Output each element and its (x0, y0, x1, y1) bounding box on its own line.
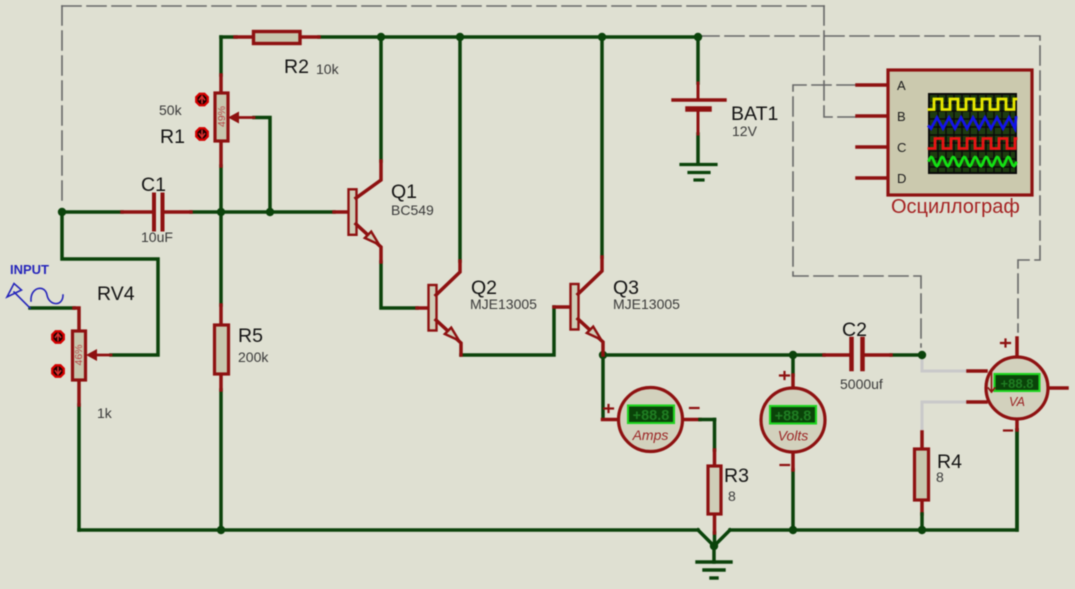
svg-text:+88.8: +88.8 (633, 408, 670, 424)
node: wiper junction (266, 208, 274, 216)
dashed link: battery rail to VA meter plus (700, 36, 1040, 332)
svg-text:R5: R5 (238, 325, 263, 347)
svg-text:A: A (897, 78, 906, 93)
R1 up button (196, 94, 207, 105)
node: rail Q3 (598, 33, 606, 41)
wire: Q2 collector to rail (458, 37, 462, 261)
transistor Q1 (334, 161, 381, 262)
dashed region border top/left + scope pin B dashed link (62, 6, 856, 203)
wire: top supply rail (221, 35, 698, 39)
wire: Q3 collector to rail (600, 37, 604, 257)
trace B blue (929, 118, 1016, 129)
wire: R3 bottom to ground node (713, 533, 717, 546)
wire: main horizontal input node y=211 (62, 210, 334, 214)
svg-text:C: C (897, 140, 906, 155)
transistor Q3 (554, 257, 603, 355)
svg-text:INPUT: INPUT (10, 262, 49, 277)
RV4 down button (52, 365, 63, 376)
node: rail Q1 (377, 33, 385, 41)
svg-text:BAT1: BAT1 (731, 103, 778, 125)
svg-text:1k: 1k (97, 405, 113, 421)
RV4 up button (52, 331, 63, 342)
svg-text:C2: C2 (842, 319, 867, 341)
wire: Q2 emitter to Q3 base (461, 307, 554, 355)
wire: bottom rail diagonals to ground node (698, 530, 730, 546)
svg-text:10uF: 10uF (141, 229, 173, 245)
svg-text:VA: VA (1009, 395, 1025, 409)
wire: top rail down to R1 (219, 37, 223, 75)
potentiometer RV4 (73, 308, 112, 405)
svg-text:50k: 50k (159, 102, 183, 118)
wire: input connector to RV4 top (30, 306, 74, 310)
svg-text:Amps: Amps (632, 427, 669, 443)
wire: battery top (696, 37, 700, 83)
resistor R4 (915, 432, 929, 530)
svg-text:5000uf: 5000uf (840, 376, 883, 392)
svg-text:Volts: Volts (778, 428, 809, 444)
svg-text:10k: 10k (316, 61, 340, 77)
node: emitter output (599, 351, 607, 359)
node: volts ground (789, 526, 797, 534)
svg-text:MJE13005: MJE13005 (470, 296, 537, 312)
capacitor C2 (824, 339, 891, 369)
node: R1/R5 junction (217, 208, 225, 216)
svg-text:8: 8 (728, 488, 736, 504)
svg-text:D: D (897, 171, 906, 186)
wire: Volts meter bottom to rail (791, 470, 795, 530)
wire: battery bottom to ground (696, 134, 700, 164)
svg-text:RV4: RV4 (97, 283, 135, 305)
wire: gray tape output node to VA left top (922, 357, 968, 371)
pin B (857, 114, 888, 118)
wire: RV4 bottom to ground rail (77, 405, 81, 530)
wire: Amps to R3 (713, 420, 717, 451)
svg-text:R2: R2 (284, 56, 309, 78)
wire: Volts meter top branch (791, 355, 795, 375)
svg-text:B: B (897, 109, 906, 124)
wire: R5 top (219, 212, 223, 305)
battery BAT1 (673, 83, 725, 134)
wire: Q1 emitter to Q2 base (381, 262, 417, 308)
oscilloscope U1 (857, 70, 1032, 218)
wire: bottom ground rail left (79, 528, 698, 532)
svg-text:12V: 12V (732, 123, 758, 139)
pin D (857, 176, 888, 180)
node: R5 ground (217, 526, 225, 534)
pin C (857, 145, 888, 149)
node: rail Q2 (456, 33, 464, 41)
pin A (857, 83, 888, 87)
transistor Q2 (417, 261, 461, 355)
trace D green (929, 157, 1016, 166)
wire: output rail y=355 (603, 353, 921, 357)
resistor R2 (235, 32, 319, 44)
svg-text:C1: C1 (141, 174, 166, 196)
wire: R5 bottom (219, 390, 223, 530)
dashed link: output node to scope pin A (793, 85, 921, 347)
wire: input node down and around to RV4 wiper (62, 212, 158, 355)
wire: gray tape VA left bottom to R4 (922, 402, 968, 432)
wire: bottom ground rail right (730, 430, 1017, 530)
meter Volts (761, 372, 825, 470)
trace A yellow (929, 99, 1016, 110)
wire: ground node stem (712, 546, 716, 562)
meter VA (968, 338, 1067, 431)
node: ground star point (710, 542, 718, 550)
node: input junction (58, 208, 66, 216)
svg-text:Осциллограф: Осциллограф (891, 196, 1020, 218)
wire: Q1 collector to rail (379, 37, 383, 161)
node: C2 output (918, 351, 926, 359)
R1 down button (196, 128, 207, 139)
svg-text:46%: 46% (73, 344, 85, 365)
svg-text:200k: 200k (238, 349, 269, 365)
wire: R1 wiper feedback (254, 118, 270, 213)
scope screen (928, 93, 1017, 174)
svg-text:49%: 49% (216, 106, 228, 127)
generator INPUT (7, 284, 63, 309)
node: rail battery (694, 33, 702, 41)
svg-text:BC549: BC549 (391, 202, 434, 218)
svg-text:8: 8 (936, 469, 944, 485)
node: R4 ground (918, 526, 926, 534)
ground (main) (697, 562, 731, 578)
svg-text:R3: R3 (724, 465, 749, 487)
potentiometer R1 (215, 75, 254, 166)
wire: R1 bottom to main node (219, 166, 223, 212)
wire: VA meter bottom to rail (1015, 430, 1019, 530)
node: volts tap (789, 351, 797, 359)
svg-text:Q1: Q1 (391, 181, 417, 203)
ground (battery) (681, 165, 716, 181)
meter Amps (603, 388, 715, 452)
resistor R3 (708, 450, 721, 533)
capacitor C1 (122, 195, 191, 230)
svg-text:MJE13005: MJE13005 (613, 296, 680, 312)
wire: Amps meter branch (601, 355, 605, 419)
svg-text:R1: R1 (160, 126, 185, 148)
resistor R5 (215, 305, 229, 390)
svg-text:+88.8: +88.8 (775, 408, 812, 424)
trace C red (929, 139, 1016, 149)
svg-text:+88.8: +88.8 (1001, 376, 1034, 391)
